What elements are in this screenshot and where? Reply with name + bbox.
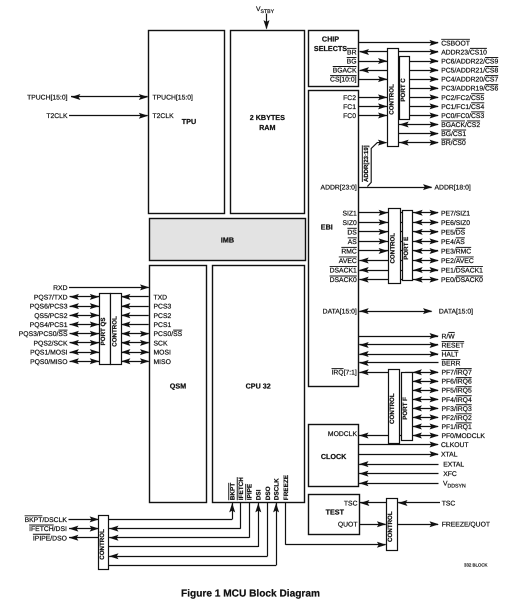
svg-text:IFETCH: IFETCH xyxy=(238,477,245,500)
svg-text:R/W: R/W xyxy=(442,333,456,340)
svg-text:Figure 1 MCU Block Diagram: Figure 1 MCU Block Diagram xyxy=(181,588,320,599)
svg-text:DSO: DSO xyxy=(265,486,272,500)
wire IRQ[7:1] into EBI xyxy=(359,369,388,375)
svg-text:RMC: RMC xyxy=(341,248,357,255)
svg-text:PE7/SIZ1: PE7/SIZ1 xyxy=(441,210,470,217)
block IMB bus bar xyxy=(150,219,306,261)
wire QSM port row 3 xyxy=(70,312,149,318)
wire DATA[15:0] bus bidirectional xyxy=(359,308,432,314)
svg-text:CONTROL: CONTROL xyxy=(388,84,395,115)
label CPU 32 xyxy=(246,381,271,390)
svg-text:CS[10:0]: CS[10:0] xyxy=(330,77,357,84)
label EBI xyxy=(321,222,333,231)
wire BKPT vertical drop from CPU32 xyxy=(229,502,235,519)
wire XFC input xyxy=(359,471,438,477)
wire TSC from pin through control into TEST xyxy=(360,500,440,506)
svg-text:TSC: TSC xyxy=(442,500,456,507)
svg-text:TXD: TXD xyxy=(154,294,168,301)
svg-text:FC2: FC2 xyxy=(343,95,356,102)
svg-text:BGACK: BGACK xyxy=(333,68,357,75)
svg-text:CSBOOT: CSBOOT xyxy=(441,40,470,47)
wire BG/CS1 row xyxy=(393,131,439,137)
wire port F row 8 xyxy=(359,432,439,438)
labels debug external xyxy=(25,516,68,542)
label 332 BLOCK xyxy=(464,563,488,568)
wire DSO vertical drop from CPU32 xyxy=(267,502,269,556)
svg-text:XTAL: XTAL xyxy=(441,452,458,459)
svg-text:ADDR[23:19]: ADDR[23:19] xyxy=(363,145,370,182)
svg-text:PF1/IRQ1: PF1/IRQ1 xyxy=(442,424,472,431)
svg-text:FREEZE/QUOT: FREEZE/QUOT xyxy=(442,522,490,529)
svg-text:DSACK0: DSACK0 xyxy=(330,277,357,284)
svg-text:BGACK/CS2: BGACK/CS2 xyxy=(441,122,480,129)
wire V_STBY supply into RAM xyxy=(264,14,270,30)
svg-text:PQS0/MISO: PQS0/MISO xyxy=(30,359,67,366)
block CLOCK xyxy=(309,425,359,487)
svg-text:PE5/DS: PE5/DS xyxy=(441,229,466,236)
wire port E row 2 xyxy=(359,219,439,225)
labels port E pins xyxy=(441,210,483,284)
svg-text:ADDR[18:0]: ADDR[18:0] xyxy=(435,185,471,192)
pins inside QSM xyxy=(154,294,183,365)
pins inside EBI xyxy=(321,185,358,377)
bus tap ADDR[23:19] from address bus up to chip-select control xyxy=(362,140,387,187)
label TEST xyxy=(326,508,345,517)
svg-text:PE3/RMC: PE3/RMC xyxy=(441,248,471,255)
labels TPU external xyxy=(27,94,68,120)
wire QSM port row 7 xyxy=(70,349,150,355)
wire ADDR[23:0] bus out to ADDR[18:0] xyxy=(359,184,433,190)
svg-text:SIZ0: SIZ0 xyxy=(342,220,357,227)
svg-text:PORT C: PORT C xyxy=(400,78,407,102)
svg-text:PQS6/PCS3: PQS6/PCS3 xyxy=(30,304,68,311)
svg-text:QSM: QSM xyxy=(170,381,186,390)
box test CONTROL xyxy=(387,499,398,551)
svg-text:PCS0/SS: PCS0/SS xyxy=(154,331,183,338)
wire R/W out xyxy=(359,333,439,339)
svg-text:IRQ[7:1]: IRQ[7:1] xyxy=(331,370,356,377)
wire DSCLK row xyxy=(109,565,277,567)
svg-text:IMB: IMB xyxy=(221,235,234,244)
caption Figure 1 MCU Block Diagram xyxy=(181,588,320,599)
svg-text:BKPT: BKPT xyxy=(230,483,237,500)
wire FC2 / PC2 row xyxy=(359,94,439,100)
svg-text:CLOCK: CLOCK xyxy=(321,452,347,461)
svg-text:PORT F: PORT F xyxy=(402,397,409,420)
wire port F row 6 xyxy=(405,414,439,420)
svg-text:PC0/FC0/CS3: PC0/FC0/CS3 xyxy=(441,113,484,120)
label ADDR[18:0] xyxy=(435,185,471,192)
wire port E row 8 xyxy=(359,277,439,283)
wire port E row 1 xyxy=(359,210,439,216)
svg-text:T2CLK: T2CLK xyxy=(153,113,175,120)
svg-text:PQS3/PCS0/SS: PQS3/PCS0/SS xyxy=(19,331,68,338)
wire RXD into QSM xyxy=(69,284,149,290)
label TPU xyxy=(182,117,196,126)
svg-text:CONTROL: CONTROL xyxy=(99,529,106,560)
svg-text:EXTAL: EXTAL xyxy=(443,462,464,469)
box PORT F xyxy=(402,373,413,441)
wire XTAL out xyxy=(359,451,439,457)
wire QSM port row 6 xyxy=(70,340,150,346)
svg-text:PQS7/TXD: PQS7/TXD xyxy=(34,294,68,301)
labels port F pins xyxy=(442,369,486,440)
svg-text:TPUCH[15:0]: TPUCH[15:0] xyxy=(27,94,68,101)
wire IPIPE vertical drop from CPU32 xyxy=(249,502,251,537)
svg-text:AVEC: AVEC xyxy=(339,258,357,265)
wire port E row 6 xyxy=(359,258,439,264)
pin MODCLK inside CLOCK xyxy=(328,431,358,438)
wire QSM port row 4 xyxy=(70,322,149,328)
wire IFETCH/DSI bidirectional row xyxy=(69,526,241,532)
svg-text:PE0/DSACK0: PE0/DSACK0 xyxy=(441,277,483,284)
svg-text:IPIPE: IPIPE xyxy=(247,483,254,500)
wire BERR input xyxy=(359,360,438,366)
svg-text:PF6/IRQ6: PF6/IRQ6 xyxy=(442,379,472,386)
wire BR / ADDR23-CS10 row xyxy=(360,49,439,55)
wire EXTAL input xyxy=(359,461,438,467)
svg-text:PF0/MODCLK: PF0/MODCLK xyxy=(442,433,486,440)
box chip-select CONTROL xyxy=(388,49,399,147)
wire port F row 7 xyxy=(405,423,439,429)
svg-text:PE2/AVEC: PE2/AVEC xyxy=(441,258,474,265)
wire BG / PC6 row xyxy=(359,58,439,64)
block 2 KBYTES RAM xyxy=(231,31,305,214)
svg-text:EBI: EBI xyxy=(321,222,333,231)
label CLOCK xyxy=(321,452,347,461)
svg-text:CONTROL: CONTROL xyxy=(387,511,394,542)
svg-text:PC1/FC1/CS4: PC1/FC1/CS4 xyxy=(441,104,484,111)
wire port E row 3 xyxy=(359,229,439,235)
wire PC3/ADDR19/CS6 row xyxy=(402,85,439,91)
wire BR/CS0 row xyxy=(393,140,439,146)
svg-text:DATA[15:0]: DATA[15:0] xyxy=(323,309,357,316)
box PORT QS xyxy=(100,294,111,365)
svg-text:CLKOUT: CLKOUT xyxy=(441,442,469,449)
svg-text:PF4/IRQ4: PF4/IRQ4 xyxy=(442,397,472,404)
wire DSO row xyxy=(109,553,267,559)
labels test pins xyxy=(442,500,490,528)
svg-text:PE1/DSACK1: PE1/DSACK1 xyxy=(441,267,483,274)
wire IFETCH vertical drop from CPU32 xyxy=(240,502,242,528)
svg-text:MISO: MISO xyxy=(154,359,171,366)
wire QSM port row 2 xyxy=(70,303,149,309)
block QSM xyxy=(150,266,207,503)
box debug CONTROL xyxy=(99,516,109,570)
wire HALT bidirectional xyxy=(359,351,439,357)
wire FREEZE vertical drop from CPU32 xyxy=(285,502,287,544)
svg-text:PQS2/SCK: PQS2/SCK xyxy=(34,340,68,347)
label V_STBY xyxy=(256,6,275,15)
svg-text:TPUCH[15:0]: TPUCH[15:0] xyxy=(153,94,194,101)
svg-text:RXD: RXD xyxy=(53,285,67,292)
wire VDDSYN input xyxy=(359,480,438,486)
pins TSC QUOT inside TEST xyxy=(338,500,358,528)
wire DSCLK vertical drop from CPU32 xyxy=(273,502,279,565)
box port F CONTROL xyxy=(389,370,400,444)
label DATA[15:0] xyxy=(439,309,473,316)
svg-text:CONTROL: CONTROL xyxy=(111,316,118,347)
svg-text:DATA[15:0]: DATA[15:0] xyxy=(439,309,473,316)
svg-text:DS: DS xyxy=(347,229,357,236)
pins inside TPU xyxy=(153,94,194,120)
svg-text:CHIP: CHIP xyxy=(322,35,339,44)
svg-text:BR: BR xyxy=(347,49,357,56)
wire port F row 3 xyxy=(405,387,439,393)
svg-text:332 BLOCK: 332 BLOCK xyxy=(464,563,488,568)
pins inside CHIP SELECTS xyxy=(330,48,357,83)
svg-text:PQS4/PCS1: PQS4/PCS1 xyxy=(30,322,68,329)
svg-text:PCS3: PCS3 xyxy=(154,304,172,311)
svg-text:HALT: HALT xyxy=(442,351,459,358)
wire port F row 1 xyxy=(405,369,439,375)
box EBI CONTROL xyxy=(389,209,401,284)
wire FC0 / PC0 row xyxy=(359,112,439,118)
wire CS[10:0] / PC4 row xyxy=(359,76,439,82)
svg-text:FREEZE: FREEZE xyxy=(283,474,290,500)
wire CSBOOT from CHIP SELECTS to pin xyxy=(359,40,439,46)
svg-text:TPU: TPU xyxy=(182,117,196,126)
pins at CPU32 bottom edge (rotated) xyxy=(229,474,290,500)
box PORT E xyxy=(403,211,413,281)
pins FC2 FC1 FC0 inside EBI xyxy=(343,95,356,120)
svg-text:BG/CS1: BG/CS1 xyxy=(441,131,466,138)
wire FC1 / PC1 row xyxy=(359,103,439,109)
svg-text:T2CLK: T2CLK xyxy=(46,113,68,120)
block CPU32 xyxy=(213,266,305,503)
svg-text:PF7/IRQ7: PF7/IRQ7 xyxy=(442,370,472,377)
svg-text:PF2/IRQ2: PF2/IRQ2 xyxy=(442,415,472,422)
svg-text:PC2/FC2/CS5: PC2/FC2/CS5 xyxy=(441,95,484,102)
wire QUOT out as FREEZE/QUOT xyxy=(360,521,439,527)
svg-text:TEST: TEST xyxy=(326,508,345,517)
svg-text:PORT QS: PORT QS xyxy=(100,317,107,345)
wire TPUCH[15:0] bidirectional into TPU xyxy=(71,94,148,100)
svg-text:MODCLK: MODCLK xyxy=(328,431,358,438)
box PORT C xyxy=(400,57,410,120)
labels bus control pins xyxy=(442,332,465,367)
svg-text:PC6/ADDR22/CS9: PC6/ADDR22/CS9 xyxy=(441,58,498,65)
wire BGACK / PC5 row xyxy=(360,67,439,73)
wire port E row 7 xyxy=(359,267,439,273)
svg-text:CONTROL: CONTROL xyxy=(389,233,396,264)
wire port F row 4 xyxy=(405,396,439,402)
labels QSM external xyxy=(19,285,68,366)
svg-text:CPU 32: CPU 32 xyxy=(246,381,271,390)
wire port F row 5 xyxy=(405,405,439,411)
svg-text:PF3/IRQ3: PF3/IRQ3 xyxy=(442,406,472,413)
wire port E row 4 xyxy=(359,238,439,244)
svg-text:DSCLK: DSCLK xyxy=(273,478,280,500)
svg-text:PORT E: PORT E xyxy=(403,237,410,260)
svg-text:FC0: FC0 xyxy=(343,113,356,120)
block CHIP SELECTS xyxy=(309,31,359,87)
svg-text:PCS1: PCS1 xyxy=(154,322,172,329)
svg-text:2 KBYTES: 2 KBYTES xyxy=(250,113,285,122)
svg-text:DSI: DSI xyxy=(256,489,263,500)
wire port F row 2 xyxy=(405,378,439,384)
wire DSI row xyxy=(109,546,259,548)
labels clock pins xyxy=(441,442,469,490)
wire IPIPE/DSO output row xyxy=(69,535,249,541)
svg-text:TSC: TSC xyxy=(344,500,358,507)
svg-text:SCK: SCK xyxy=(154,340,168,347)
svg-text:QS5/PCS2: QS5/PCS2 xyxy=(34,313,67,320)
label QSM xyxy=(170,381,186,390)
svg-text:FC1: FC1 xyxy=(343,104,356,111)
svg-text:CONTROL: CONTROL xyxy=(389,393,396,424)
labels port C pins xyxy=(441,39,498,147)
svg-text:PF5/IRQ5: PF5/IRQ5 xyxy=(442,388,472,395)
svg-text:MOSI: MOSI xyxy=(154,350,171,357)
svg-text:IFETCH/DSI: IFETCH/DSI xyxy=(29,526,67,533)
svg-text:PCS2: PCS2 xyxy=(154,313,172,320)
svg-text:BKPT/DSCLK: BKPT/DSCLK xyxy=(25,517,68,524)
svg-text:PC3/ADDR19/CS6: PC3/ADDR19/CS6 xyxy=(441,86,498,93)
wire QSM port row 5 xyxy=(70,331,150,337)
svg-text:ADDR23/CS10: ADDR23/CS10 xyxy=(441,49,487,56)
svg-text:SELECTS: SELECTS xyxy=(314,44,347,53)
svg-text:PE4/AS: PE4/AS xyxy=(441,239,465,246)
block TEST xyxy=(309,495,360,535)
label CHIP SELECTS xyxy=(314,35,347,53)
svg-text:QUOT: QUOT xyxy=(338,522,358,529)
svg-text:PC5/ADDR21/CS8: PC5/ADDR21/CS8 xyxy=(441,68,498,75)
label IMB xyxy=(221,235,234,244)
svg-text:RAM: RAM xyxy=(259,123,275,132)
svg-text:IPIPE/DSO: IPIPE/DSO xyxy=(33,535,67,542)
svg-text:BERR: BERR xyxy=(442,360,461,367)
wire BGACK/CS2 row xyxy=(393,122,439,128)
wire FREEZE from CPU32 to test control xyxy=(286,542,387,548)
wire CLKOUT out xyxy=(359,442,439,448)
label 2 KBYTES RAM xyxy=(250,113,285,132)
wire port E row 5 xyxy=(359,248,439,254)
wire DSI vertical drop from CPU32 xyxy=(255,502,261,547)
block EBI xyxy=(309,91,359,387)
wire QSM port row 8 xyxy=(70,358,150,364)
wire T2CLK into TPU xyxy=(69,113,148,119)
svg-text:BR/CS0: BR/CS0 xyxy=(441,140,466,147)
box QSM CONTROL xyxy=(111,294,122,365)
wire BKPT/DSCLK input row xyxy=(69,516,233,522)
svg-text:PC4/ADDR20/CS7: PC4/ADDR20/CS7 xyxy=(441,77,498,84)
svg-text:AS: AS xyxy=(348,239,358,246)
svg-text:BG: BG xyxy=(347,58,357,65)
svg-text:DSACK1: DSACK1 xyxy=(330,267,357,274)
svg-text:ADDR[23:0]: ADDR[23:0] xyxy=(321,185,357,192)
svg-text:XFC: XFC xyxy=(443,471,457,478)
svg-text:PQS1/MOSI: PQS1/MOSI xyxy=(30,350,68,357)
svg-text:PE6/SIZ0: PE6/SIZ0 xyxy=(441,220,470,227)
wire QSM port row 1 xyxy=(70,294,149,300)
svg-text:SIZ1: SIZ1 xyxy=(342,210,357,217)
wire RESET bidirectional xyxy=(359,342,439,348)
svg-text:RESET: RESET xyxy=(442,342,465,349)
block TPU xyxy=(149,31,225,214)
